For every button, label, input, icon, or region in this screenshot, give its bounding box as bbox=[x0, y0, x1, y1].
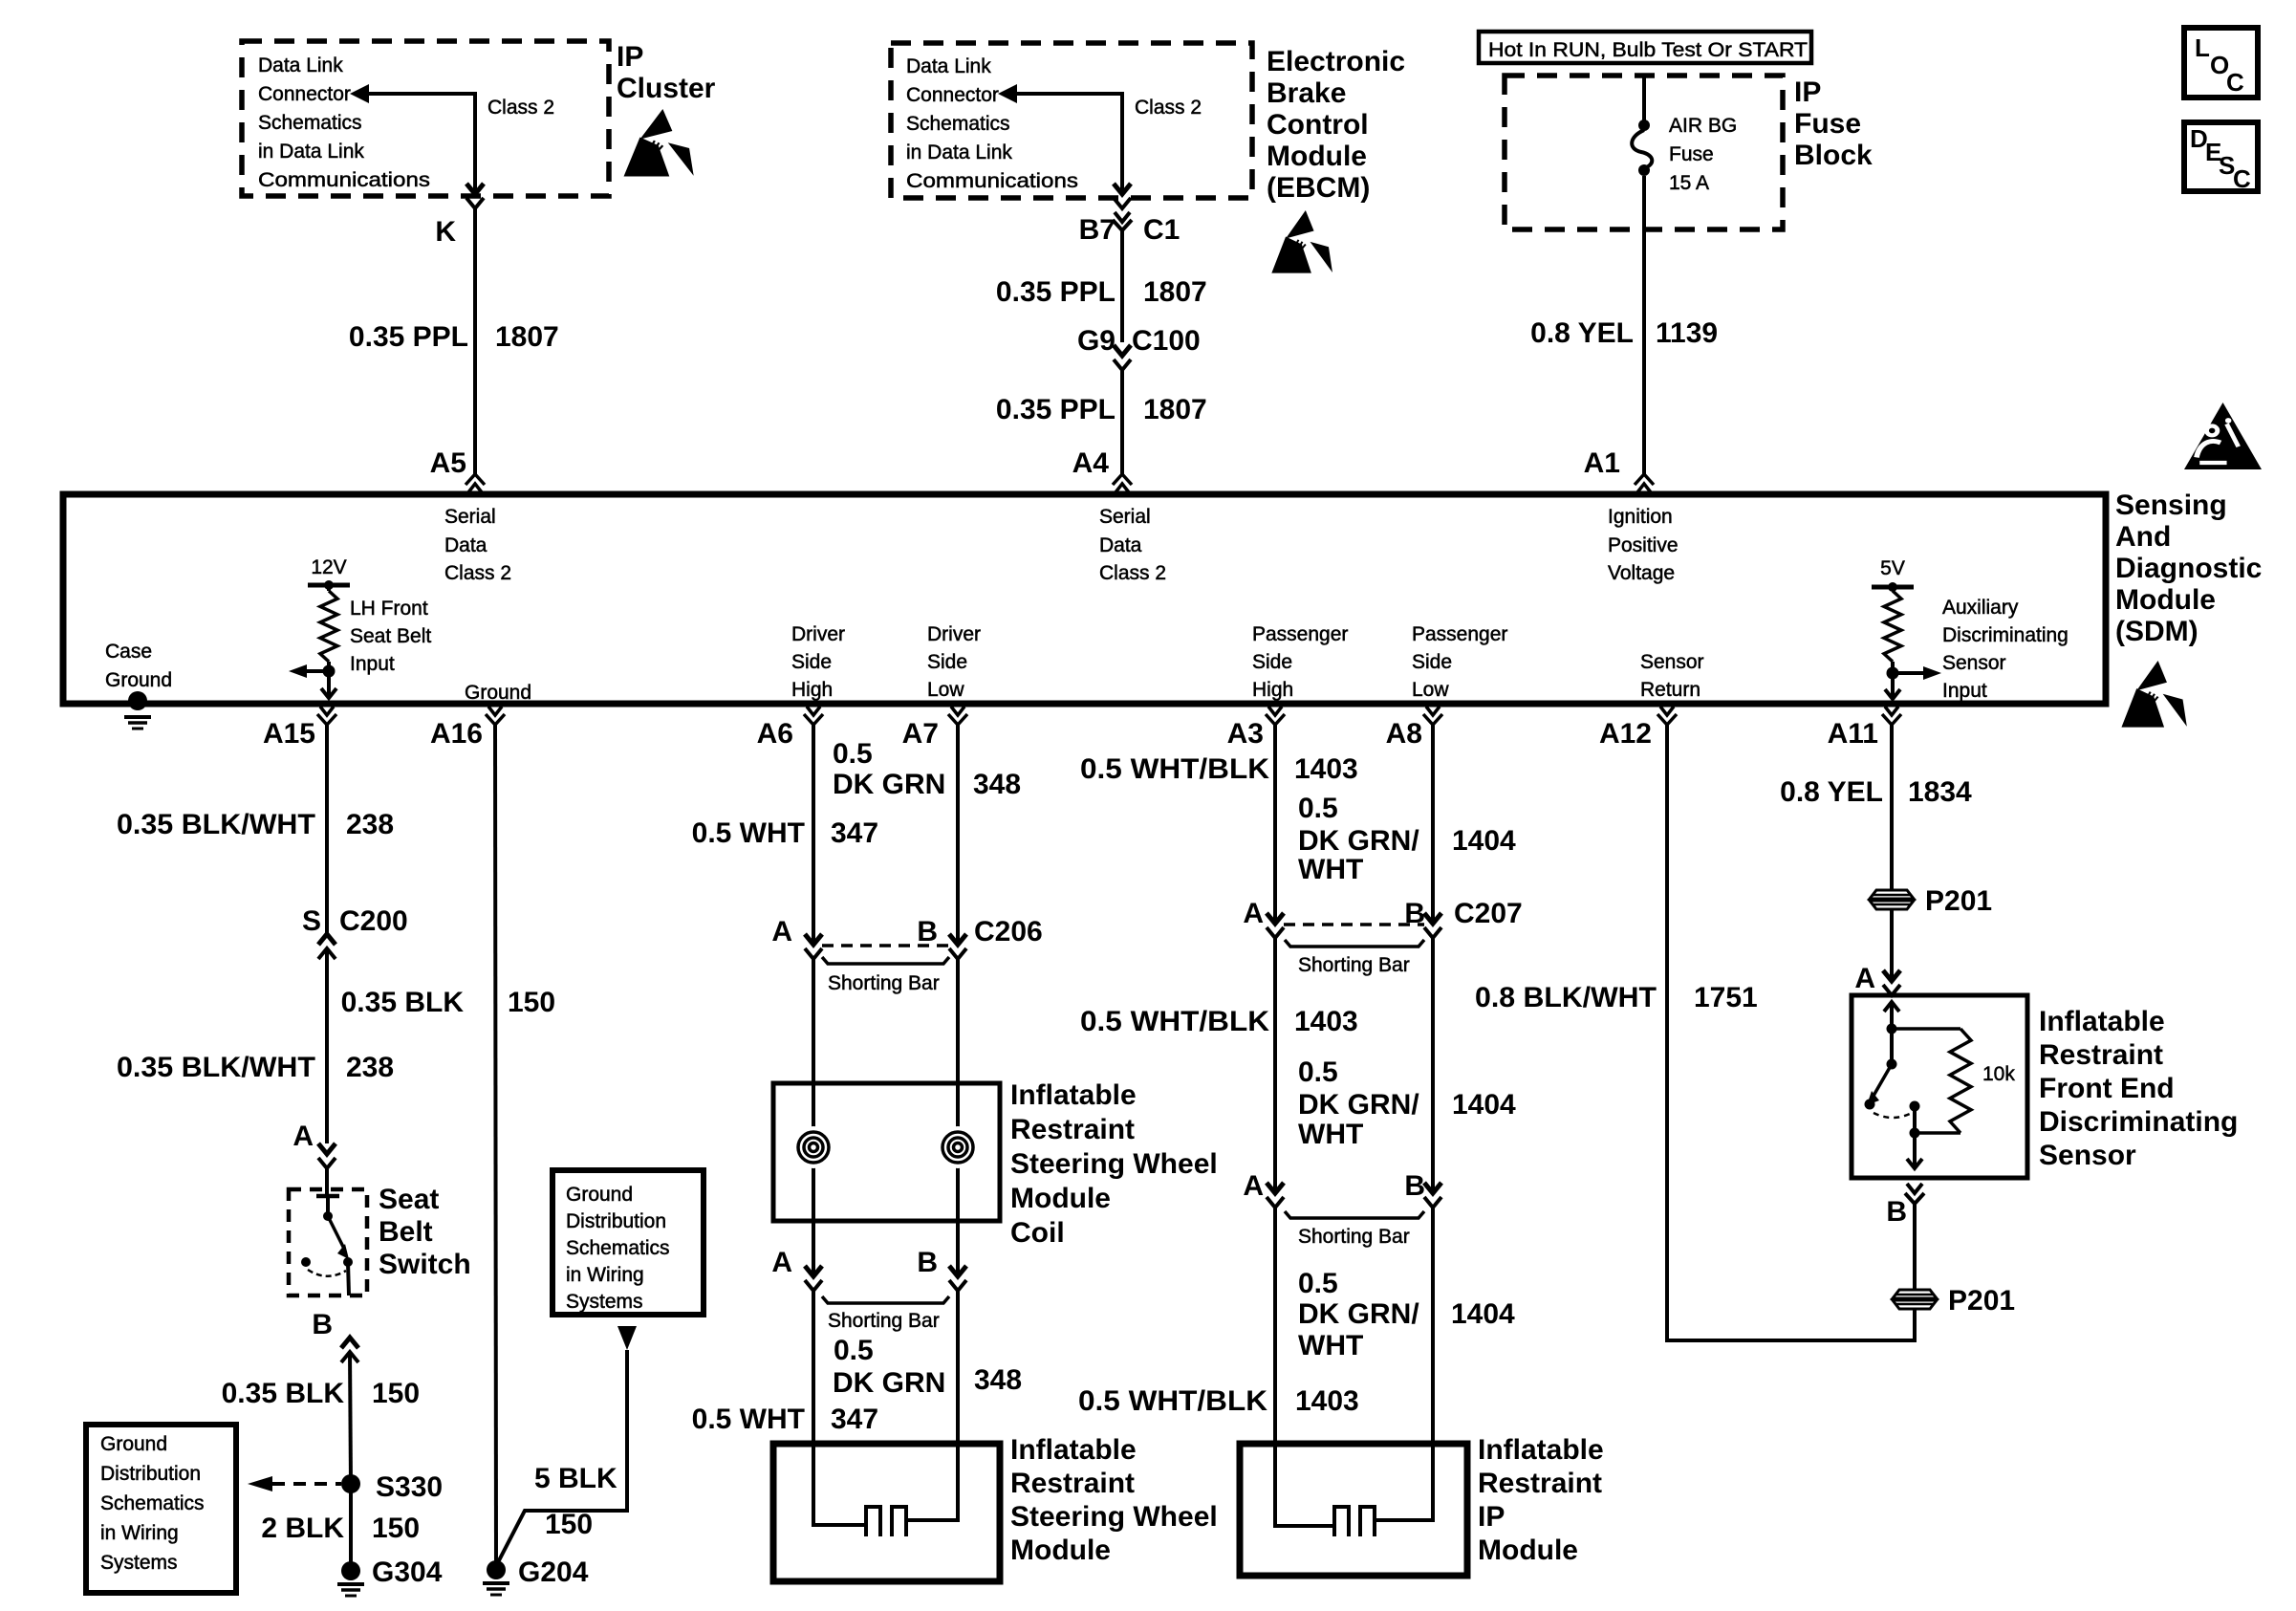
fuse AIR BG 15A bbox=[1632, 120, 1652, 176]
svg-text:P201: P201 bbox=[1925, 885, 1992, 917]
connector mid-B bbox=[1424, 1183, 1441, 1208]
label: 0.5 DK GRN/ WHT 1404 (row3) bbox=[1298, 1268, 1515, 1361]
connector K at IP cluster bbox=[466, 184, 484, 208]
wire: coil to lower connector (A) bbox=[812, 1221, 815, 1276]
svg-text:347: 347 bbox=[831, 817, 878, 849]
svg-text:Fuse: Fuse bbox=[1669, 143, 1714, 165]
wire: switch to S330 bbox=[350, 1352, 351, 1484]
svg-text:1403: 1403 bbox=[1294, 1006, 1358, 1037]
svg-text:C206: C206 bbox=[974, 916, 1043, 947]
connector C206-B bbox=[949, 934, 966, 959]
label: Serial Data Class 2 (A5) bbox=[444, 506, 511, 584]
shorting bar dashed link (C206) bbox=[822, 944, 949, 947]
module box: Inflatable Restraint IP Module bbox=[1240, 1444, 1467, 1576]
shorting bar dashed link (C207) bbox=[1284, 923, 1424, 926]
svg-text:High: High bbox=[791, 679, 833, 701]
pin A1 fork bbox=[1635, 474, 1654, 492]
label A7 bbox=[902, 718, 939, 750]
svg-text:1807: 1807 bbox=[1143, 276, 1207, 308]
pin A3 fork bbox=[1266, 707, 1285, 725]
svg-text:Distribution: Distribution bbox=[100, 1463, 201, 1485]
svg-text:Discriminating: Discriminating bbox=[1942, 624, 2069, 646]
label: Passenger Side High bbox=[1252, 623, 1348, 701]
shorting bar brace (coil lower) bbox=[822, 1296, 949, 1303]
box: Seat Belt Switch (dashed) bbox=[289, 1189, 367, 1295]
svg-text:Block: Block bbox=[1794, 140, 1873, 171]
svg-text:Inflatable: Inflatable bbox=[1010, 1434, 1137, 1466]
label: 0.8 YEL 1139 bbox=[1530, 317, 1718, 349]
svg-text:Belt: Belt bbox=[379, 1216, 433, 1248]
label: Data Link Connector Schematics in Data Link Communications bbox=[258, 54, 430, 191]
sensor switch arm bbox=[1867, 1064, 1892, 1105]
label: Class 2 (EBCM) bbox=[1135, 97, 1202, 119]
svg-text:Inflatable: Inflatable bbox=[2039, 1006, 2165, 1037]
svg-text:0.5: 0.5 bbox=[1298, 793, 1338, 824]
svg-text:IP: IP bbox=[1478, 1501, 1505, 1533]
connector coil-module A bbox=[805, 1266, 822, 1291]
svg-text:1807: 1807 bbox=[1143, 394, 1207, 425]
label: Shorting Bar (C207) bbox=[1298, 954, 1410, 976]
svg-text:0.5 WHT: 0.5 WHT bbox=[692, 817, 805, 849]
svg-text:Class 2: Class 2 bbox=[444, 562, 511, 584]
svg-text:A: A bbox=[1243, 1170, 1264, 1202]
label: Serial Data Class 2 (A4) bbox=[1099, 506, 1166, 584]
title: Inflatable Restraint IP Module bbox=[1478, 1434, 1604, 1566]
connector mid-A bbox=[1267, 1183, 1284, 1208]
label P201 (lower) bbox=[1948, 1285, 2015, 1317]
wire: C207 to mid connector (B) bbox=[1431, 938, 1435, 1193]
svg-text:Systems: Systems bbox=[566, 1291, 643, 1313]
pin A5 fork bbox=[466, 474, 485, 492]
svg-text:Module: Module bbox=[1010, 1183, 1111, 1214]
svg-text:A8: A8 bbox=[1386, 718, 1422, 750]
svg-text:in Wiring: in Wiring bbox=[566, 1264, 644, 1286]
pin B7 fork of C1 bbox=[1113, 212, 1132, 230]
svg-text:(SDM): (SDM) bbox=[2115, 616, 2199, 647]
box: Data Link Connector Schematics note (IP Cluster) bbox=[242, 41, 609, 196]
svg-text:0.35 BLK: 0.35 BLK bbox=[341, 987, 465, 1018]
label P201 (upper) bbox=[1925, 885, 1992, 917]
svg-text:A: A bbox=[1243, 898, 1264, 929]
label A B (mid) bbox=[1243, 1170, 1425, 1202]
svg-text:B7: B7 bbox=[1079, 214, 1116, 246]
wire: A6 to C206 bbox=[812, 725, 815, 945]
wire: sensor contact to B pin bbox=[1907, 1106, 1922, 1168]
label: 0.5 WHT/BLK 1403 (row3) bbox=[1078, 1385, 1359, 1417]
svg-text:Sensor: Sensor bbox=[1942, 652, 2006, 674]
svg-text:High: High bbox=[1252, 679, 1293, 701]
svg-text:Connector: Connector bbox=[906, 84, 999, 106]
label: Passenger Side Low bbox=[1412, 623, 1507, 701]
label: 0.5 DK GRN 348 (lower) bbox=[833, 1335, 1022, 1399]
svg-text:B: B bbox=[1886, 1196, 1907, 1228]
label K bbox=[435, 216, 456, 248]
pin A12 fork bbox=[1657, 707, 1677, 725]
label: ground distribution note text (middle) bbox=[566, 1184, 670, 1313]
svg-text:Shorting Bar: Shorting Bar bbox=[828, 972, 940, 994]
label: 0.5 DK GRN/ WHT 1404 (row1) bbox=[1298, 793, 1516, 885]
svg-text:in Data Link: in Data Link bbox=[258, 141, 364, 163]
label: Data Link Connector Schematics in Data Link Communications (EBCM) bbox=[906, 55, 1078, 192]
svg-text:Restraint: Restraint bbox=[1010, 1114, 1135, 1145]
shorting bar brace (mid) bbox=[1285, 1211, 1424, 1218]
svg-text:347: 347 bbox=[831, 1404, 878, 1435]
svg-text:Electronic: Electronic bbox=[1267, 46, 1405, 77]
sensor contact left bbox=[1865, 1099, 1875, 1110]
svg-text:Schematics: Schematics bbox=[906, 113, 1010, 135]
svg-text:Serial: Serial bbox=[1099, 506, 1151, 528]
label A15 bbox=[263, 718, 315, 750]
svg-text:0.5 WHT/BLK: 0.5 WHT/BLK bbox=[1078, 1385, 1267, 1417]
pin A7 fork bbox=[948, 707, 967, 725]
box: IP Fuse Block (dashed) bbox=[1505, 76, 1783, 229]
svg-text:1404: 1404 bbox=[1452, 825, 1516, 857]
label S C200 bbox=[302, 905, 408, 937]
svg-text:Low: Low bbox=[927, 679, 964, 701]
svg-text:0.8 YEL: 0.8 YEL bbox=[1530, 317, 1634, 349]
pin A6 fork bbox=[804, 707, 823, 725]
svg-text:150: 150 bbox=[508, 987, 555, 1018]
svg-text:Module: Module bbox=[1010, 1535, 1111, 1566]
label: 5V bbox=[1880, 557, 1905, 579]
svg-text:Cluster: Cluster bbox=[617, 73, 716, 104]
label: 0.35 BLK/WHT 238 (lower) bbox=[117, 1052, 394, 1083]
wire: Class 2 serial data from IP cluster to DLC arrow bbox=[350, 84, 475, 103]
svg-text:Data: Data bbox=[444, 534, 487, 556]
wire: B7 to C100 bbox=[1120, 230, 1124, 342]
label: 0.5 WHT 347 (lower) bbox=[692, 1404, 878, 1435]
connector sensor-A bbox=[1883, 970, 1900, 995]
sensor input arrow up bbox=[1884, 1002, 1899, 1029]
pin B fork (sensor) bbox=[1905, 1184, 1924, 1204]
junction + arrow right (5V) bbox=[1887, 662, 1942, 680]
wire: vertical inside IP cluster box bbox=[473, 92, 477, 191]
svg-text:in Wiring: in Wiring bbox=[100, 1522, 179, 1544]
pin A8 fork bbox=[1423, 707, 1442, 725]
wire: C206 to coil box (A) bbox=[812, 959, 815, 1083]
svg-text:0.35 PPL: 0.35 PPL bbox=[996, 394, 1116, 425]
label: 0.5 WHT/BLK 1403 (row1) bbox=[1080, 753, 1358, 785]
label B (switch) bbox=[312, 1309, 333, 1340]
svg-text:0.35 PPL: 0.35 PPL bbox=[996, 276, 1116, 308]
label A11 bbox=[1828, 718, 1878, 750]
svg-text:Side: Side bbox=[927, 651, 967, 673]
svg-text:Steering Wheel: Steering Wheel bbox=[1010, 1148, 1218, 1180]
wire: A12 sensor return loop bbox=[1667, 725, 1915, 1340]
label: Ground (A16) bbox=[465, 682, 531, 704]
svg-text:Module: Module bbox=[2115, 584, 2216, 616]
svg-text:Inflatable: Inflatable bbox=[1478, 1434, 1604, 1466]
wire: into switch box bbox=[325, 1168, 329, 1195]
label: Driver Side High bbox=[791, 623, 845, 701]
svg-text:Return: Return bbox=[1640, 679, 1700, 701]
label: 0.35 BLK 150 (switch) bbox=[222, 1378, 420, 1409]
label A4 bbox=[1072, 447, 1110, 479]
wire: to IP module (B) bbox=[1431, 1208, 1435, 1444]
svg-text:C100: C100 bbox=[1132, 325, 1201, 357]
label G9 C100 bbox=[1077, 325, 1201, 357]
svg-text:Fuse: Fuse bbox=[1794, 108, 1861, 140]
svg-text:L: L bbox=[2195, 33, 2210, 62]
svg-text:Low: Low bbox=[1412, 679, 1449, 701]
svg-text:Distribution: Distribution bbox=[566, 1210, 666, 1232]
wire: sensor B to P201 bbox=[1913, 1204, 1917, 1290]
wire: ground note arrow to G204 bbox=[497, 1326, 637, 1564]
svg-text:1403: 1403 bbox=[1295, 1385, 1359, 1417]
box: Ground Distribution Schematics in Wiring Systems (left) bbox=[86, 1425, 236, 1593]
wire: P201 to sensor bbox=[1890, 910, 1894, 981]
svg-text:348: 348 bbox=[973, 769, 1021, 800]
svg-text:Class 2: Class 2 bbox=[1135, 97, 1202, 119]
splice S330 bbox=[341, 1474, 360, 1493]
svg-text:Sensing: Sensing bbox=[2115, 490, 2227, 521]
svg-text:1751: 1751 bbox=[1694, 982, 1758, 1013]
svg-text:A11: A11 bbox=[1828, 718, 1878, 750]
connector B below switch bbox=[341, 1338, 358, 1362]
svg-text:A3: A3 bbox=[1227, 718, 1264, 750]
icon: LOC box bbox=[2184, 28, 2258, 98]
svg-text:Restraint: Restraint bbox=[1010, 1468, 1135, 1499]
wire: A15 to C200 bbox=[325, 725, 329, 933]
module box: steering wheel coil bbox=[773, 1083, 1000, 1221]
wire: vertical inside EBCM box bbox=[1120, 92, 1124, 191]
label: 2 BLK 150 bbox=[261, 1513, 420, 1544]
label: 0.35 PPL 1807 (upper) bbox=[996, 276, 1207, 308]
svg-text:C207: C207 bbox=[1454, 898, 1523, 929]
pin A4 fork bbox=[1113, 474, 1132, 492]
shorting bar brace (C207) bbox=[1285, 940, 1424, 947]
label: ground distribution note text (left) bbox=[100, 1433, 205, 1574]
svg-text:Shorting Bar: Shorting Bar bbox=[1298, 954, 1410, 976]
svg-text:Communications: Communications bbox=[906, 170, 1078, 192]
svg-text:Ground: Ground bbox=[105, 669, 172, 691]
svg-text:238: 238 bbox=[346, 1052, 394, 1083]
svg-text:Side: Side bbox=[1412, 651, 1452, 673]
wire: A7 to C206 bbox=[956, 725, 960, 945]
svg-text:348: 348 bbox=[974, 1364, 1022, 1396]
sensor contact right bbox=[1910, 1101, 1920, 1112]
label: Case Ground bbox=[105, 641, 172, 691]
ground G304 bbox=[337, 1561, 364, 1596]
svg-text:Data Link: Data Link bbox=[258, 54, 343, 76]
connector C207-B bbox=[1424, 913, 1441, 938]
label A B C207 bbox=[1243, 898, 1522, 929]
svg-text:G9: G9 bbox=[1077, 325, 1116, 357]
svg-text:0.5: 0.5 bbox=[1298, 1268, 1338, 1299]
title: Inflatable Restraint Steering Wheel Module Coil bbox=[1010, 1079, 1218, 1249]
svg-text:DK GRN/: DK GRN/ bbox=[1298, 1298, 1419, 1330]
label: 0.35 BLK/WHT 238 (upper) bbox=[117, 809, 394, 840]
label A8 bbox=[1386, 718, 1422, 750]
sensor travel arc (dashed) bbox=[1874, 1113, 1912, 1118]
label B (sensor) bbox=[1886, 1196, 1907, 1228]
label: AIR BG Fuse 15 A bbox=[1669, 115, 1737, 194]
label: 0.8 BLK/WHT 1751 bbox=[1475, 982, 1758, 1013]
svg-text:in Data Link: in Data Link bbox=[906, 142, 1012, 163]
label G304 bbox=[372, 1557, 443, 1588]
title: IP Fuse Block bbox=[1794, 76, 1873, 171]
svg-text:1834: 1834 bbox=[1908, 776, 1972, 808]
svg-text:Driver: Driver bbox=[927, 623, 981, 645]
svg-text:Module: Module bbox=[1267, 141, 1367, 172]
label: 0.5 WHT 347 (A6 upper) bbox=[692, 817, 878, 849]
label: Shorting Bar (coil lower) bbox=[828, 1310, 940, 1332]
svg-text:0.5: 0.5 bbox=[833, 738, 873, 770]
svg-text:B: B bbox=[312, 1309, 333, 1340]
label A3 bbox=[1227, 718, 1264, 750]
label A1 bbox=[1584, 447, 1620, 479]
svg-text:C1: C1 bbox=[1143, 214, 1180, 246]
svg-text:0.35 BLK/WHT: 0.35 BLK/WHT bbox=[117, 809, 315, 840]
svg-text:A12: A12 bbox=[1599, 718, 1652, 750]
svg-text:A: A bbox=[771, 916, 792, 947]
svg-text:0.5: 0.5 bbox=[1298, 1056, 1338, 1088]
label A B C206 bbox=[771, 916, 1042, 947]
label: Class 2 bbox=[487, 97, 554, 119]
svg-text:12V: 12V bbox=[311, 556, 346, 578]
label: LH Front Seat Belt Input bbox=[350, 598, 431, 675]
label: 0.5 WHT/BLK 1403 (row2) bbox=[1080, 1006, 1358, 1037]
arrow down to A11 inside SDM bbox=[1885, 673, 1900, 699]
label: Driver Side Low bbox=[927, 623, 981, 701]
svg-text:Sensor: Sensor bbox=[2039, 1140, 2136, 1171]
label: 12V bbox=[311, 556, 346, 578]
svg-text:Restraint: Restraint bbox=[2039, 1039, 2163, 1071]
svg-text:Control: Control bbox=[1267, 109, 1369, 141]
box: Ground Distribution Schematics in Wiring Systems (middle) bbox=[552, 1170, 704, 1315]
svg-text:G304: G304 bbox=[372, 1557, 443, 1588]
svg-text:A5: A5 bbox=[430, 447, 466, 479]
label: 0.35 PPL 1807 (IP cluster) bbox=[349, 321, 559, 353]
wire: C206 to coil box (B) bbox=[956, 959, 960, 1083]
svg-text:Diagnostic: Diagnostic bbox=[2115, 553, 2262, 584]
wire: into fuse bbox=[1642, 76, 1646, 121]
wire: S330 to G304 bbox=[349, 1484, 353, 1571]
label B7 C1 bbox=[1079, 214, 1180, 246]
svg-text:Communications: Communications bbox=[258, 169, 430, 191]
title: Sensing And Diagnostic Module (SDM) bbox=[2115, 490, 2262, 647]
svg-text:DK GRN: DK GRN bbox=[833, 769, 945, 800]
svg-text:Side: Side bbox=[791, 651, 832, 673]
module box: Sensing And Diagnostic Module (SDM) bbox=[63, 494, 2106, 704]
wire: C207 to mid connector (A) bbox=[1273, 938, 1277, 1193]
svg-text:A1: A1 bbox=[1584, 447, 1620, 479]
svg-text:Shorting Bar: Shorting Bar bbox=[1298, 1226, 1410, 1248]
svg-text:1404: 1404 bbox=[1452, 1089, 1516, 1121]
svg-text:A: A bbox=[292, 1121, 314, 1152]
pin A15 fork bbox=[317, 707, 336, 725]
svg-text:S: S bbox=[302, 905, 321, 937]
sensor node 1 bbox=[1887, 1024, 1897, 1070]
wire: A3 to C207 bbox=[1273, 725, 1277, 924]
box: Hot In RUN Bulb Test Or START bbox=[1479, 32, 1811, 63]
svg-text:C: C bbox=[2233, 164, 2251, 193]
svg-text:Class 2: Class 2 bbox=[1099, 562, 1166, 584]
svg-text:Class 2: Class 2 bbox=[487, 97, 554, 119]
svg-text:A15: A15 bbox=[263, 718, 315, 750]
svg-text:K: K bbox=[435, 216, 456, 248]
wire: A11 to P201 bbox=[1890, 725, 1894, 890]
coil spiral left bbox=[792, 1126, 834, 1168]
svg-text:1404: 1404 bbox=[1451, 1298, 1515, 1330]
svg-text:1807: 1807 bbox=[495, 321, 559, 353]
svg-text:P201: P201 bbox=[1948, 1285, 2015, 1317]
svg-text:5V: 5V bbox=[1880, 557, 1905, 579]
connector C200 bbox=[318, 934, 336, 959]
label: 0.5 DK GRN/ WHT 1404 (row2) bbox=[1298, 1056, 1516, 1150]
svg-text:Schematics: Schematics bbox=[258, 112, 362, 134]
label: 0.5 DK GRN 348 (A7 upper) bbox=[833, 738, 1021, 800]
svg-text:G204: G204 bbox=[518, 1557, 589, 1588]
title: Seat Belt Switch bbox=[379, 1184, 471, 1280]
ground G204 bbox=[483, 1560, 509, 1595]
svg-text:5 BLK: 5 BLK bbox=[534, 1463, 617, 1494]
icon: ESD symbol (SDM) bbox=[2121, 661, 2186, 728]
label A B (coil lower) bbox=[771, 1247, 938, 1278]
svg-text:0.35 PPL: 0.35 PPL bbox=[349, 321, 468, 353]
resistor: seat belt input pullup bbox=[320, 591, 337, 662]
icon: ESD symbol (IP cluster) bbox=[624, 109, 694, 177]
wire: C200 to seat belt switch bbox=[325, 948, 329, 1143]
svg-text:DK GRN: DK GRN bbox=[833, 1367, 945, 1399]
icon: DESC box bbox=[2184, 122, 2258, 193]
svg-text:S330: S330 bbox=[376, 1471, 443, 1503]
svg-text:A6: A6 bbox=[757, 718, 793, 750]
svg-text:B: B bbox=[917, 1247, 938, 1278]
arrow down to A15 inside SDM bbox=[321, 671, 336, 698]
svg-text:Data Link: Data Link bbox=[906, 55, 991, 77]
box: Data Link Connector Schematics note (EBCM) bbox=[891, 43, 1252, 198]
svg-text:Ignition: Ignition bbox=[1608, 506, 1673, 528]
wire: C100 to SDM pin A4 bbox=[1120, 370, 1124, 474]
svg-text:1403: 1403 bbox=[1294, 753, 1358, 785]
svg-text:150: 150 bbox=[372, 1378, 420, 1409]
svg-text:Serial: Serial bbox=[444, 506, 496, 528]
svg-text:IP: IP bbox=[617, 41, 643, 73]
svg-text:Positive: Positive bbox=[1608, 534, 1679, 556]
label A (switch) bbox=[292, 1121, 314, 1152]
label A16 bbox=[430, 718, 483, 750]
label: Shorting Bar (mid) bbox=[1298, 1226, 1410, 1248]
svg-text:Switch: Switch bbox=[379, 1249, 471, 1280]
label: 0.8 YEL 1834 bbox=[1780, 776, 1972, 808]
icon: ESD symbol (EBCM) bbox=[1271, 210, 1332, 273]
label: 5 BLK 150 bbox=[534, 1463, 617, 1540]
wire: Class 2 arrow to DLC (EBCM) bbox=[998, 84, 1122, 103]
svg-text:Discriminating: Discriminating bbox=[2039, 1106, 2238, 1138]
svg-text:Restraint: Restraint bbox=[1478, 1468, 1602, 1499]
svg-text:2 BLK: 2 BLK bbox=[261, 1513, 344, 1544]
svg-text:Passenger: Passenger bbox=[1252, 623, 1348, 645]
label: Hot In RUN, Bulb Test Or START bbox=[1488, 39, 1808, 61]
svg-text:10k: 10k bbox=[1982, 1063, 2015, 1085]
svg-text:150: 150 bbox=[545, 1509, 593, 1540]
wire: to IP module (A) bbox=[1273, 1208, 1277, 1444]
module box: front end discriminating sensor bbox=[1852, 995, 2027, 1178]
svg-text:0.5 WHT/BLK: 0.5 WHT/BLK bbox=[1080, 1006, 1269, 1037]
svg-text:A: A bbox=[771, 1247, 792, 1278]
wire: to steering module (B) bbox=[956, 1291, 960, 1444]
wire: A8 to C207 bbox=[1431, 725, 1435, 924]
pin A11 fork bbox=[1882, 707, 1901, 725]
svg-text:Seat: Seat bbox=[379, 1184, 439, 1215]
svg-text:C200: C200 bbox=[339, 905, 408, 937]
svg-text:WHT: WHT bbox=[1298, 1119, 1363, 1150]
pass-through P201 (upper) bbox=[1870, 890, 1914, 909]
title: Inflatable Restraint Steering Wheel Module bbox=[1010, 1434, 1218, 1566]
connector: EBCM box exit arrow bbox=[1114, 184, 1131, 208]
svg-text:B: B bbox=[1404, 1170, 1425, 1202]
